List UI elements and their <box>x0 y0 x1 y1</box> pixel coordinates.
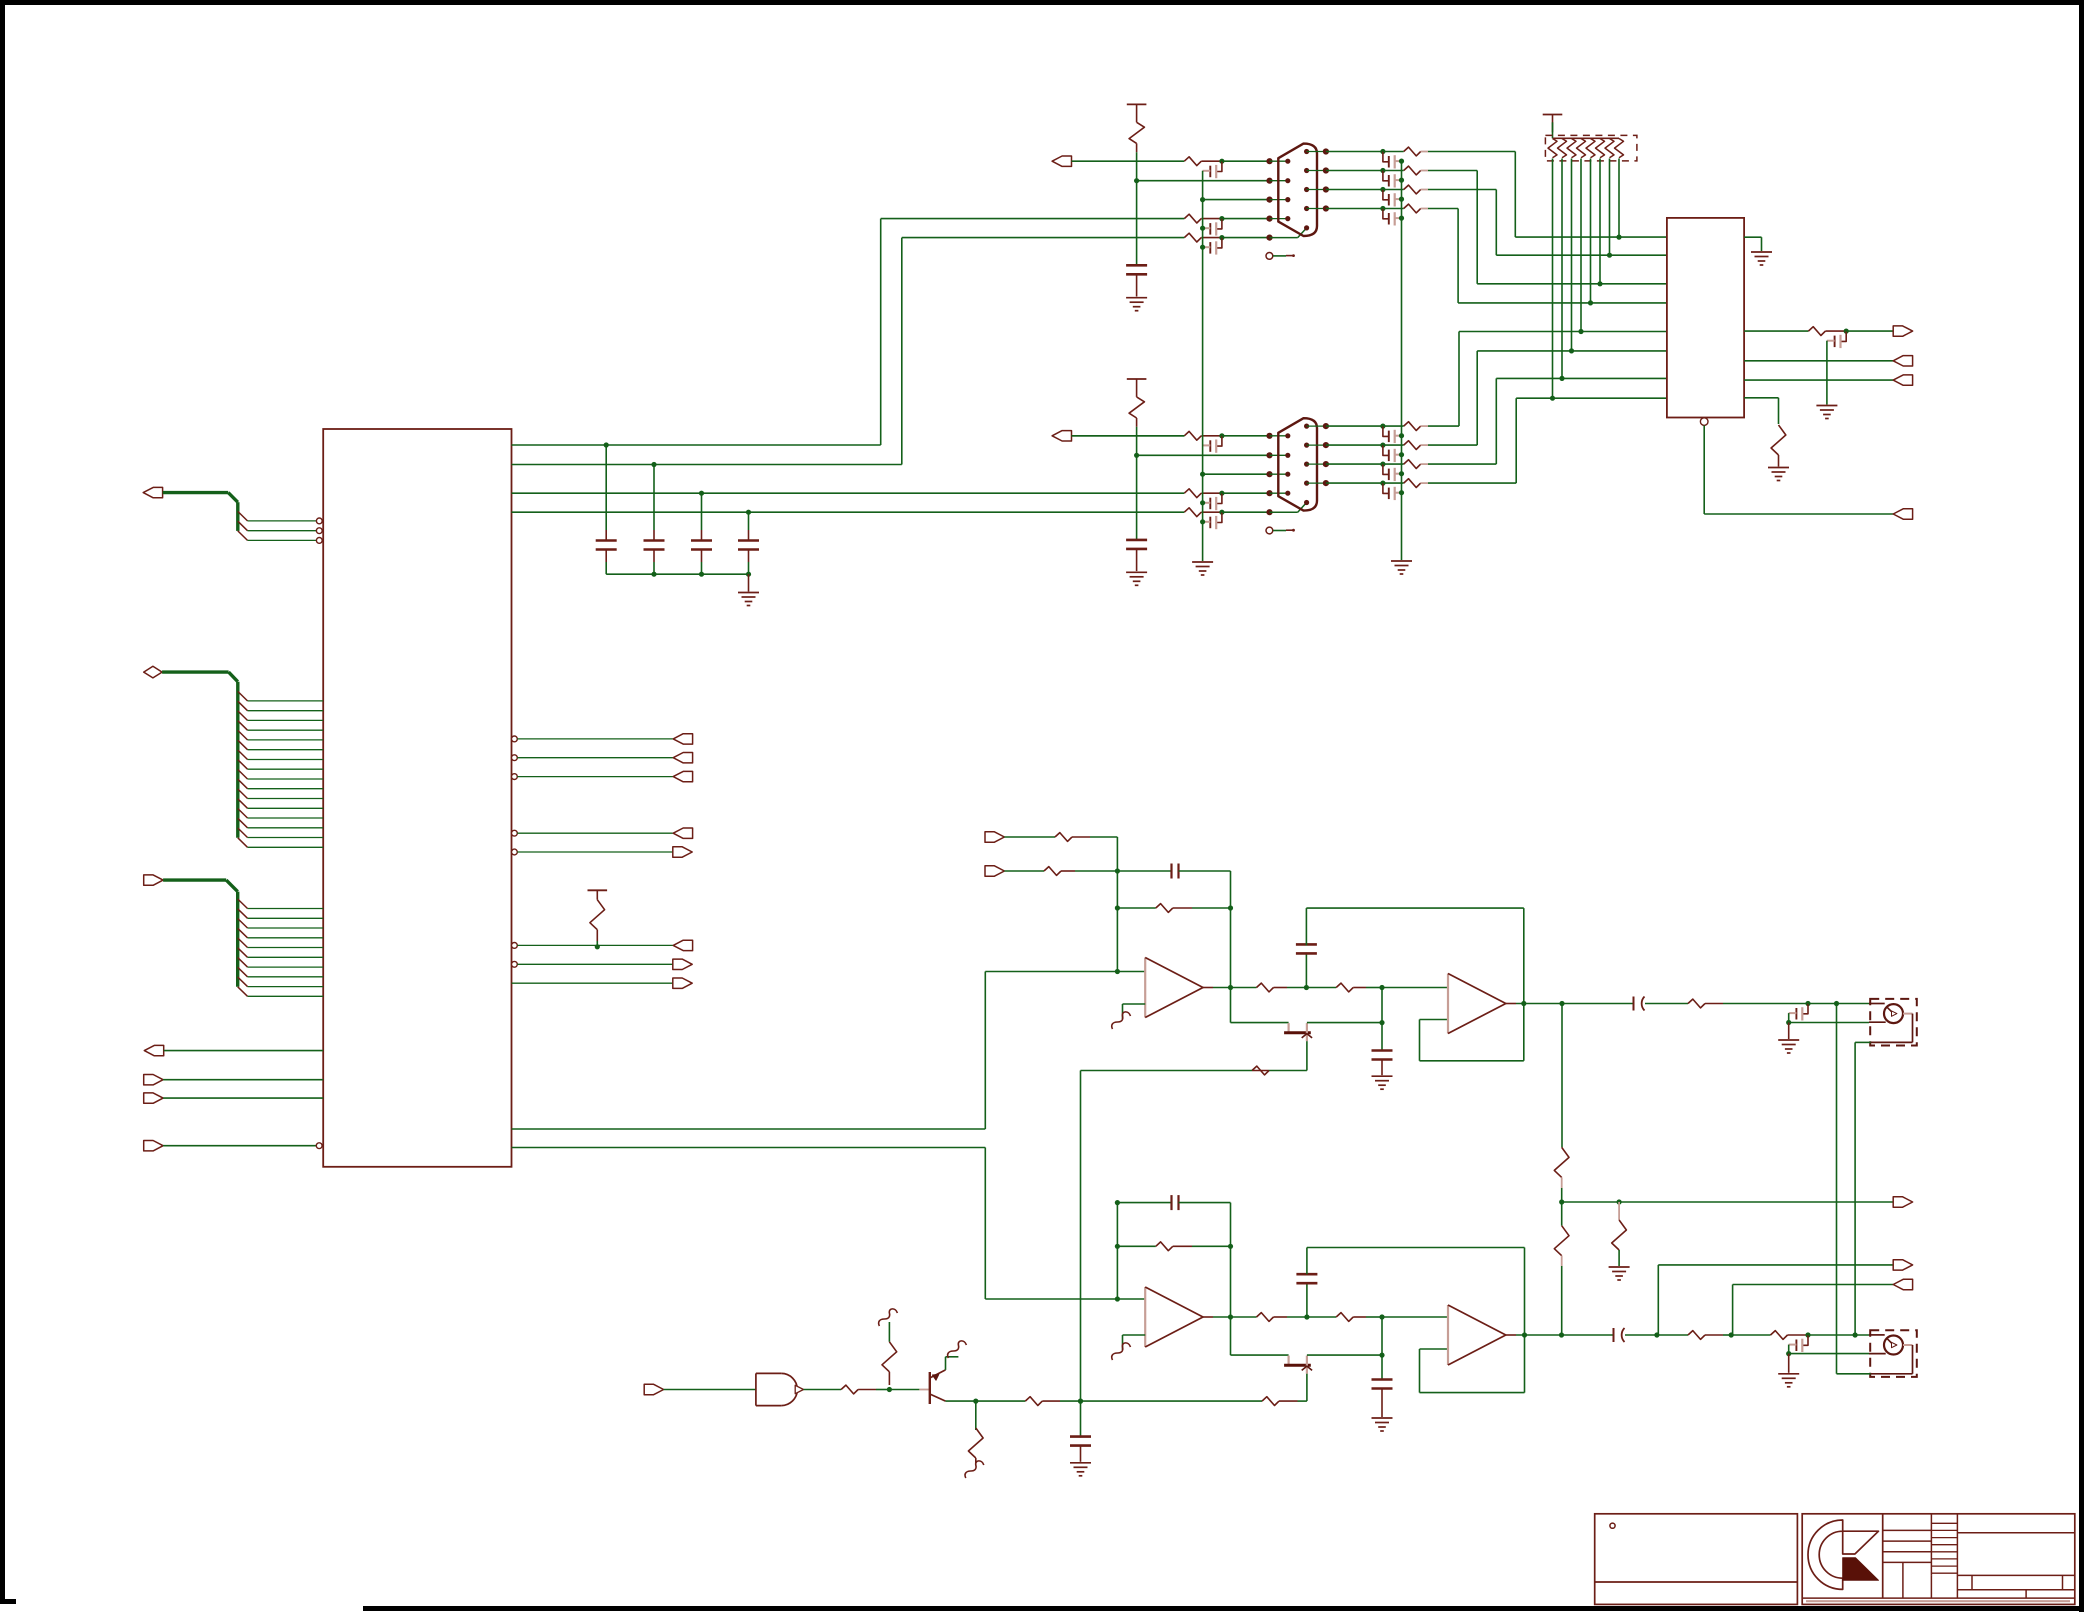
wire U1 right pin y964 <box>512 961 518 967</box>
capacitor C shunt CN2 x1136 <box>1126 539 1147 542</box>
wire to series resistor right row 2 CN2 <box>1383 444 1404 446</box>
capacitor C coupling lower <box>1613 1328 1615 1342</box>
junction cap-bus E CN2 <box>1200 519 1205 524</box>
capacitor C mute <box>1070 1435 1091 1438</box>
wire U2 row y360 <box>1744 360 1893 362</box>
junction base node <box>887 1387 892 1392</box>
wire emitter row <box>946 1400 976 1402</box>
transistor Q mute upper <box>1287 1023 1289 1032</box>
wire emi bus to ground upper <box>1788 1023 1790 1040</box>
connector CN2 DB9 outline <box>1278 418 1317 510</box>
wire U1 pin y1098 <box>163 1097 323 1099</box>
junction opamp C plus input <box>1115 1296 1120 1301</box>
wire fb resistor row lower <box>1117 1245 1155 1247</box>
connector arrow mute input <box>644 1384 663 1394</box>
junction line A cap CN1 <box>1219 159 1224 164</box>
bus2 rip stub 1 <box>238 691 248 701</box>
wire bus2 pin 9 <box>248 778 324 780</box>
bus3 rip stub 1 <box>238 899 248 909</box>
wire bypass cap 1 upper leg <box>605 445 607 530</box>
bus2 rip stub 15 <box>238 828 248 838</box>
transistor Q1 collector <box>930 1370 946 1378</box>
wire sk node down leg lower <box>1381 1317 1383 1355</box>
junction lower out node B <box>1729 1332 1734 1337</box>
ground symbol sk lower <box>1372 1417 1393 1419</box>
Commodore logo flag solid <box>1843 1558 1879 1581</box>
wire port1 line D horizontal <box>881 218 1185 220</box>
shield pin circle CN2 <box>1266 527 1273 534</box>
junction RP1-6 row <box>1597 281 1602 286</box>
wire cross-link upper node to lower jack shield <box>1836 1004 1838 1374</box>
CN2 pins left column <box>1285 433 1290 438</box>
page border left <box>0 0 5 1604</box>
wire bypass cap 2 lower leg <box>653 550 655 563</box>
bus2 rip stub 14 <box>238 818 248 828</box>
wire mute rail upper left <box>1231 1022 1289 1024</box>
capacitor C EMI RCA upper <box>1803 1004 1808 1014</box>
junction RP1-3 row <box>1569 348 1574 353</box>
bus2 rip stub 4 <box>238 721 248 731</box>
wire to series resistor right row 3 CN1 <box>1383 189 1404 191</box>
connector arrow U2 row y360 <box>1893 356 1912 366</box>
connector arrow U1 right y964 <box>673 959 692 969</box>
wire mute rail upper right <box>1307 1022 1382 1024</box>
resistor RP1 element 5 <box>1586 139 1595 158</box>
capacitor C EMI line A CN2 <box>1217 436 1222 446</box>
wire pull-up to line B junction CN2 <box>1136 427 1138 456</box>
Commodore logo flag outline <box>1843 1531 1879 1554</box>
bus2 rip stub 7 <box>238 750 248 760</box>
op-amp C <box>1144 1287 1146 1347</box>
wire opamp A minus input <box>1123 1003 1146 1005</box>
wire RP1 element 1 to row <box>1552 159 1554 399</box>
RCA jack J2 tip lead <box>1869 1334 1885 1336</box>
junction RP1-4 row <box>1578 329 1583 334</box>
op-amp D <box>1447 1305 1449 1365</box>
wire CN1 right pin row 3 <box>1307 189 1326 191</box>
wire U1 right pin y983 <box>512 982 673 984</box>
wire opamp C output <box>1203 1316 1213 1318</box>
resistor R series right row 4 CN1 <box>1404 204 1421 213</box>
title block narrow column border <box>1956 1514 1958 1598</box>
IC U2 box <box>1667 218 1744 418</box>
shield pin circle CN1 <box>1266 253 1273 260</box>
wire RP1 element 3 to row <box>1571 159 1573 351</box>
wire bus2 pin 3 <box>248 719 324 721</box>
wire CN2 right pin row 1 <box>1307 425 1326 427</box>
U2 output row wire y331 <box>1744 330 1808 332</box>
power squiggle base pull-up <box>879 1309 898 1326</box>
bus2 rip stub 13 <box>238 809 248 819</box>
wire mux row 4 <box>1458 302 1667 304</box>
RCA jack J1 center pin <box>1887 1007 1894 1014</box>
wire line C CN1 <box>1203 199 1270 201</box>
junction opamp B plus node <box>1379 985 1384 990</box>
junction emitter divider <box>973 1399 978 1404</box>
ground symbol CN1 x1136 <box>1126 297 1147 299</box>
wire fb resistor row upper <box>1117 907 1155 909</box>
capacitor C EMI right row 4 CN2 <box>1383 483 1388 493</box>
wire bypass cap 3 upper leg <box>701 493 703 530</box>
resistor R series right row 2 CN1 <box>1404 166 1421 175</box>
wire sk cap to ground upper <box>1381 1060 1383 1076</box>
bus2 rip stub 5 <box>238 730 248 740</box>
ground symbol U2 cap <box>1816 405 1837 407</box>
bus3 rip stub 9 <box>238 977 248 987</box>
capacitor C EMI RCA lower <box>1803 1335 1808 1345</box>
resistor R pull-up y945 <box>590 900 605 930</box>
wire bypass cap 2 upper leg <box>653 465 655 531</box>
pin bubble bus1 3 <box>316 538 322 544</box>
wire bus3 pin 3 <box>248 927 324 929</box>
page border bottom <box>363 1606 2084 1611</box>
wire mux row 3 <box>1477 283 1667 285</box>
connector arrow U1 right y776 <box>673 771 692 781</box>
connector arrow U1 right y945 <box>673 940 692 950</box>
title block notes divider <box>1595 1581 1798 1583</box>
bus1 rip stub 1 <box>238 511 248 521</box>
bus1 rip stub 3 <box>238 531 248 541</box>
resistor R series line A CN2 <box>1184 431 1201 440</box>
wire bypass cap 1 lower leg <box>605 550 607 563</box>
wire U1 top-right pin 2 <box>512 464 902 466</box>
bus2 rip stub 9 <box>238 770 248 780</box>
wire port1 row2 staircase <box>1428 189 1496 191</box>
RCA jack J1 tip lead <box>1869 1003 1885 1005</box>
wire to coupling cap lower <box>1562 1334 1614 1336</box>
junction RP1-1 row <box>1550 396 1555 401</box>
RCA jack J1 sleeve rectangle <box>1903 1013 1913 1015</box>
wire bus2 pin 14 <box>248 827 324 829</box>
junction cap right bus row 2 CN2 <box>1399 452 1404 457</box>
wire port2 row2 staircase <box>1428 444 1477 446</box>
IC U1 box <box>323 429 511 1167</box>
connector arrow U2 bottom output <box>1893 509 1912 519</box>
connector arrow U1 right y738 <box>673 734 692 744</box>
wire to feedback cap lower <box>1117 1202 1171 1204</box>
title block logo cell border <box>1882 1514 1884 1598</box>
junction cross-link upper <box>1834 1001 1839 1006</box>
title block right column top divider <box>1957 1532 2074 1534</box>
wire bus3 pin 5 <box>248 947 324 949</box>
junction fb resistor row right lower <box>1228 1244 1233 1249</box>
ground symbol U2 bottom resistor <box>1768 467 1789 469</box>
wire sk cap to ground lower <box>1381 1389 1383 1418</box>
capacitor C sk lower <box>1372 1378 1393 1381</box>
wire mute control trunk <box>1080 1071 1082 1402</box>
title block right column mid divider <box>1957 1574 2074 1576</box>
connector arrow U1 bus1 left <box>143 487 162 497</box>
wire CN2 right pin row 2 <box>1307 444 1326 446</box>
title block notes box <box>1595 1514 1798 1605</box>
wire port2 row1 staircase <box>1428 425 1459 427</box>
wire right filter-cap ground bus x1401 <box>1401 161 1403 560</box>
power rail symbol VCC resistor pack <box>1543 114 1563 116</box>
wire upper jack shield to lower out node <box>1855 1041 1871 1043</box>
wire bus2 pin 16 <box>248 846 324 848</box>
resistor R mute gate upper <box>1252 1066 1269 1075</box>
connector arrow audio in 2 <box>985 866 1004 876</box>
capacitor C EMI right row 2 CN2 <box>1383 445 1388 455</box>
wire opamp C minus input <box>1123 1334 1146 1336</box>
wire line A CN1 <box>1072 160 1185 162</box>
junction cap right bus row 1 CN2 <box>1399 433 1404 438</box>
junction bypass cap 1 <box>604 442 609 447</box>
junction mute rail upper <box>1379 1020 1384 1025</box>
wire mute rail lower left <box>1231 1354 1289 1356</box>
junction right row 1 CN1 <box>1380 149 1385 154</box>
wire line B down-leg to capacitor CN2 <box>1136 455 1138 540</box>
junction bypass cap 3 <box>699 491 704 496</box>
resistor pack RP1 top bus bar <box>1553 137 1620 139</box>
ground symbol RCA lower <box>1778 1373 1799 1375</box>
wire bus3 pin 2 <box>248 917 324 919</box>
connector arrow U1 bus3 left <box>144 875 163 885</box>
capacitor C filter upper <box>1296 943 1317 946</box>
wire line A to pin1 CN2 <box>1222 435 1270 437</box>
analog ref squiggle opamp C <box>1112 1343 1131 1360</box>
connector arrow U1 right y833 <box>673 828 692 838</box>
junction audio out node upper <box>1559 1001 1564 1006</box>
wire to coupling cap upper <box>1562 1003 1634 1005</box>
Commodore logo C crescent <box>1808 1520 1843 1589</box>
junction bypass bus 3 <box>699 572 704 577</box>
resistor R series right row 1 CN2 <box>1404 422 1421 431</box>
wire sk node down leg upper <box>1381 988 1383 1023</box>
resistor R filter2 upper <box>1336 983 1353 992</box>
junction cap right bus row 4 CN1 <box>1399 216 1404 221</box>
junction right row 2 CN2 <box>1380 443 1385 448</box>
wire output row upper <box>1231 987 1257 989</box>
wire jack shield row upper <box>1789 1022 1869 1024</box>
resistor R emitter divider <box>968 1428 983 1458</box>
wire bus3 pin 8 <box>248 976 324 978</box>
wire to series resistor right row 3 CN2 <box>1383 463 1404 465</box>
junction fb cap row lower <box>1115 1200 1120 1205</box>
connector arrow U1 right y852 <box>673 847 692 857</box>
junction cap right bus row 3 CN2 <box>1399 471 1404 476</box>
wire bus2 trunk <box>162 670 229 673</box>
junction emi bus row2 upper <box>1786 1020 1791 1025</box>
ground symbol RCA upper <box>1778 1039 1799 1041</box>
resistor RP1 element 1 <box>1548 139 1557 158</box>
resistor R pull-up CN1 paddle line <box>1129 122 1144 143</box>
wire bus2 pin 10 <box>248 788 324 790</box>
capacitor C EMI right row 3 CN2 <box>1383 464 1388 474</box>
wire to series resistor right row 1 CN1 <box>1383 151 1404 153</box>
wire mute RC cap leg <box>1080 1401 1082 1438</box>
resistor R series right row 3 CN1 <box>1404 185 1421 194</box>
connector arrow U1 pin y1051 <box>144 1045 163 1055</box>
wire bus2 pin 8 <box>248 768 324 770</box>
wire bus1 trunk <box>163 491 229 494</box>
junction bypass cap 4 <box>746 510 751 515</box>
junction opamp D output <box>1522 1332 1527 1337</box>
connector arrow aux y1265 <box>1893 1260 1912 1270</box>
wire line B CN1 <box>1137 180 1270 182</box>
wire aux row y1284 <box>1733 1284 1894 1286</box>
wire RP1 element 4 to row <box>1580 159 1582 332</box>
wire bus3 pin 10 <box>248 995 324 997</box>
wire opamp D feedback bottom rail <box>1420 1392 1525 1394</box>
resistor R U2 to ground <box>1771 425 1786 455</box>
connector CN1 DB9 outline <box>1278 144 1317 236</box>
wire bypass ground bus <box>606 573 748 575</box>
wire U1 right pin y852 <box>512 849 518 855</box>
capacitor C bypass 4 <box>738 539 759 542</box>
page border right <box>2079 0 2084 1612</box>
junction fb resistor row left lower <box>1115 1244 1120 1249</box>
wire coupling to resistor upper <box>1645 1003 1688 1005</box>
wire bypass cap 4 upper leg <box>748 512 750 530</box>
capacitor C EMI right row 4 CN1 <box>1383 209 1388 219</box>
wire line D to pin4 CN1 <box>1222 218 1270 220</box>
wire CN1 right pin row 4 <box>1307 208 1326 210</box>
U2 bottom inverter bubble <box>1700 418 1708 426</box>
wire gate output <box>804 1389 842 1391</box>
wire bus2 pin 13 <box>248 817 324 819</box>
op-amp B <box>1447 974 1449 1034</box>
wire opamp C plus input stub <box>1117 1298 1145 1300</box>
resistor RP1 element 3 <box>1567 139 1576 158</box>
junction line E cap CN2 <box>1219 510 1224 515</box>
resistor R feedback opamp A <box>1156 904 1173 913</box>
wire emi bus to ground lower <box>1788 1354 1790 1373</box>
capacitor C EMI right row 1 CN1 <box>1383 152 1388 162</box>
wire opamp A output <box>1203 987 1213 989</box>
wire U1 pin y1146 <box>163 1145 316 1147</box>
wire bus3 pin 4 <box>248 937 324 939</box>
wire vertical to port1 line E <box>901 238 903 465</box>
wire U1 top-right pin 3 <box>512 492 1185 494</box>
power rail symbol pull-up y945 <box>588 889 608 891</box>
capacitor C EMI right row 2 CN1 <box>1383 171 1388 181</box>
analog ref squiggle opamp A <box>1112 1012 1131 1029</box>
wire CN2 right pin row 3 <box>1307 463 1326 465</box>
resistor RP1 element 2 <box>1558 139 1567 158</box>
page border top <box>0 0 2084 5</box>
wire bus3 pin 7 <box>248 966 324 968</box>
wire U1 right pin y757 <box>512 755 518 761</box>
junction cap-bus D CN1 <box>1200 226 1205 231</box>
wire bus3 trunk <box>163 878 226 881</box>
wire audio in 2 <box>1004 870 1044 872</box>
wire bus2 pin 7 <box>248 759 324 761</box>
junction RCA node lower <box>1805 1332 1810 1337</box>
wire opamp B feedback bottom rail <box>1420 1060 1524 1062</box>
connector arrow U1 pin y1080 <box>144 1075 163 1085</box>
pin bubble U1 y1146 <box>316 1143 322 1149</box>
capacitor C EMI right row 3 CN1 <box>1383 190 1388 200</box>
capacitor C EMI line D CN1 <box>1217 219 1222 229</box>
wire U2 bottom-right pin to resistor <box>1744 397 1778 399</box>
resistor R series right row 4 CN2 <box>1404 479 1421 488</box>
resistor R series line A CN1 <box>1184 157 1201 166</box>
wire RP1 element 5 to row <box>1590 159 1592 303</box>
wire fb trunk upper <box>1116 837 1118 972</box>
capacitor C filter lower <box>1296 1273 1317 1276</box>
pin bubble bus1 1 <box>316 518 322 524</box>
wire pull-up to line B junction CN1 <box>1136 152 1138 181</box>
bus3 rip stub 2 <box>238 909 248 919</box>
resistor R pull-up CN2 paddle line <box>1129 397 1144 418</box>
junction bypass bus 2 <box>651 572 656 577</box>
bus3 rip stub 7 <box>238 958 248 968</box>
wire line A to pin1 CN1 <box>1222 160 1270 162</box>
junction mute trunk gate row <box>1078 1399 1083 1404</box>
junction cap right bus row 2 CN1 <box>1399 178 1404 183</box>
wire mute gate upper leg <box>1306 1041 1308 1070</box>
connector diamond U1 bus2 left <box>144 666 162 678</box>
resistor R U2 output <box>1808 327 1825 336</box>
wire line B down-leg to capacitor CN1 <box>1136 181 1138 266</box>
wire emi cap bus lower <box>1788 1345 1790 1354</box>
wire line E to pin9 CN2 <box>1222 511 1270 513</box>
wire RP1 element 8 to row <box>1618 159 1620 238</box>
wire left filter-cap ground bus x1202 <box>1202 171 1204 561</box>
ground symbol sk upper <box>1372 1075 1393 1077</box>
wire emitter row to RC <box>976 1400 1026 1402</box>
wire port1 row4 staircase <box>1428 208 1458 210</box>
junction line C on ground bus CN2 <box>1200 472 1205 477</box>
resistor R audio in 2 <box>1044 867 1061 876</box>
junction opamp D plus node <box>1379 1314 1384 1319</box>
connector arrow audio in 1 <box>985 832 1004 842</box>
capacitor C EMI line D CN2 <box>1217 493 1222 503</box>
wire mute cap ground lead <box>1080 1446 1082 1462</box>
junction volume mid <box>1559 1199 1564 1204</box>
RCA jack J2 dashed box <box>1870 1330 1917 1377</box>
wire mute gate row upper <box>1269 1070 1307 1072</box>
bus1 rip stub 2 <box>238 521 248 531</box>
resistor R monitor shunt <box>1618 1202 1620 1220</box>
title block footer line <box>1802 1597 2075 1599</box>
RCA jack J2 center pin <box>1887 1338 1894 1345</box>
transistor Q mute lower <box>1287 1356 1289 1365</box>
wire opamp D output lead <box>1506 1334 1516 1336</box>
wire port1 line E horizontal <box>902 237 1185 239</box>
RCA jack J1 circle <box>1884 1004 1903 1023</box>
connector arrow CN2 pot input <box>1052 431 1071 441</box>
capacitor C EMI U2 output <box>1841 331 1846 341</box>
wire U1 pin y1080 <box>163 1079 323 1081</box>
wire U1 audio right channel <box>512 1147 986 1149</box>
wire port2 row4 staircase <box>1428 482 1516 484</box>
wire capacitor to ground CN1 <box>1136 274 1138 296</box>
connector arrow CN1 pot input <box>1052 156 1071 166</box>
wire U2 row y380 <box>1744 379 1893 381</box>
capacitor C shunt CN1 x1136 <box>1126 264 1147 267</box>
ground symbol right bus <box>1391 560 1412 562</box>
wire RP1 element 7 to row <box>1609 159 1611 256</box>
wire mute input <box>664 1389 756 1391</box>
capacitor C sk upper <box>1372 1049 1393 1052</box>
connector arrow U2 output right <box>1893 326 1912 336</box>
resistor R series right row 3 CN2 <box>1404 460 1421 469</box>
wire emi cap bus upper <box>1788 1013 1790 1022</box>
wire filter cap up leg lower <box>1306 1283 1308 1317</box>
wire jack shield row lower <box>1789 1353 1869 1355</box>
wire output row lower <box>1231 1316 1257 1318</box>
power rail symbol VCC CN1 <box>1127 103 1147 105</box>
capacitor C feedback opamp A <box>1170 864 1172 879</box>
wire opamp B output lead <box>1506 1003 1516 1005</box>
wire RCA node to jack lower <box>1808 1334 1869 1336</box>
bus3 rip stub 5 <box>238 938 248 948</box>
capacitor C bypass 3 <box>691 539 712 542</box>
wire bus1 pin 2 <box>248 530 317 532</box>
wire mux row 1 <box>1515 236 1667 238</box>
